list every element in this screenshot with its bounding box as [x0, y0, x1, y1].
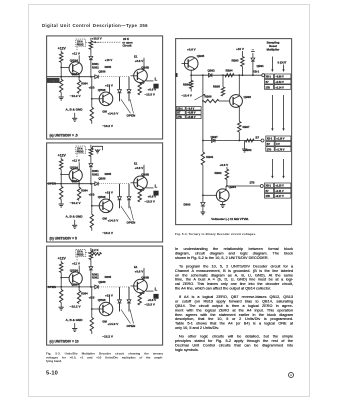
wire dotted bus	[99, 183, 129, 185]
junction	[91, 308, 93, 310]
resistor RB81	[201, 152, 204, 165]
svg-text:QB34: QB34	[69, 165, 77, 169]
svg-text:−13.2 V: −13.2 V	[102, 334, 114, 338]
wire collector QB36	[108, 295, 110, 304]
wire	[60, 92, 62, 97]
wire base QB98	[130, 182, 137, 184]
wire +12V rail	[60, 261, 62, 263]
svg-text:+1.15 V: +1.15 V	[275, 184, 284, 187]
transistor QB98	[133, 69, 147, 83]
junction	[222, 74, 224, 76]
resistor R368	[138, 83, 141, 95]
transistor QB34	[69, 62, 82, 75]
wire emitter	[78, 74, 80, 81]
svg-text:(a) UNITS/DIV = .5: (a) UNITS/DIV = .5	[49, 133, 77, 137]
resistor RB82	[226, 167, 228, 169]
body text column	[175, 247, 293, 357]
ground	[220, 204, 225, 207]
wire collector QB36	[108, 85, 110, 94]
wire collector QB36	[108, 192, 110, 201]
wire emitter QB98	[143, 81, 145, 83]
open arrow 2	[130, 206, 134, 220]
wire long vertical bus	[202, 75, 204, 152]
svg-text:PROG: PROG	[76, 255, 83, 257]
svg-text:+12V: +12V	[57, 154, 66, 158]
wire base tap	[61, 66, 69, 68]
wire	[90, 156, 92, 163]
svg-text:OPEN: OPEN	[126, 324, 136, 328]
ground	[72, 225, 77, 228]
terminal XB-1	[262, 73, 265, 76]
svg-text:−0.68 V: −0.68 V	[187, 111, 196, 114]
caption figure 5-4	[175, 233, 339, 239]
svg-text:+10 V: +10 V	[236, 47, 244, 51]
svg-text:CH A: CH A	[77, 147, 83, 150]
svg-text:+13 V: +13 V	[105, 84, 113, 88]
svg-text:B7: B7	[256, 135, 260, 139]
arrow into table 1	[271, 56, 273, 70]
transistor QB98	[133, 176, 147, 190]
svg-text:+11 V: +11 V	[72, 159, 81, 163]
resistor R365b	[90, 107, 93, 121]
wire mid bus	[203, 139, 261, 141]
wire emitter QB98	[143, 188, 145, 190]
figure 5-4 schematic	[175, 38, 293, 226]
resistor R368	[138, 294, 141, 306]
svg-text:+12V: +12V	[57, 257, 66, 261]
svg-text:GP34: GP34	[50, 79, 57, 83]
wire	[60, 169, 62, 186]
diode D361	[89, 267, 93, 270]
diode QB97	[212, 138, 215, 142]
svg-text:+12V: +12V	[57, 47, 66, 51]
svg-text:RB95: RB95	[213, 84, 220, 88]
diode QB35	[94, 285, 97, 289]
resistor R366	[77, 291, 80, 304]
svg-text:QB36: QB36	[98, 280, 106, 284]
svg-text:+0.6 V: +0.6 V	[147, 88, 156, 92]
wire dashed prog drop	[76, 257, 78, 262]
svg-text:−10.2 V: −10.2 V	[69, 201, 81, 205]
wire collector QB98	[143, 268, 145, 281]
svg-text:CH A: CH A	[77, 251, 83, 254]
ground	[244, 140, 246, 149]
svg-text:−13.5 V: −13.5 V	[144, 303, 154, 307]
svg-text:+14.0 V: +14.0 V	[107, 112, 119, 116]
junction	[60, 286, 62, 288]
resistor R362	[59, 79, 62, 92]
svg-text:RB82: RB82	[215, 171, 222, 175]
transistor QB36	[99, 92, 113, 106]
svg-text:RB81: RB81	[206, 155, 213, 159]
diode D361	[89, 164, 93, 167]
resistor R365b	[90, 318, 93, 332]
wire dashed prog line	[85, 149, 100, 151]
wire collector	[78, 266, 80, 274]
svg-text:−10.4 V: −10.4 V	[182, 93, 192, 97]
svg-text:+11 V: +11 V	[72, 262, 81, 266]
svg-text:QB96: QB96	[97, 88, 105, 92]
relay box Ch A Prog	[75, 146, 85, 153]
resistor RB98	[203, 100, 204, 102]
wire divider leg	[90, 184, 92, 215]
svg-text:B7: B7	[266, 189, 270, 192]
junction	[78, 286, 80, 288]
program clip to ground symbol	[92, 146, 102, 150]
svg-text:2.2 K: 2.2 K	[91, 248, 99, 252]
wire base QB98	[130, 75, 137, 77]
svg-text:L: L	[154, 77, 157, 82]
resistor R362	[59, 290, 62, 303]
wire out bus 3	[226, 185, 260, 187]
diode QB38	[128, 287, 130, 299]
diode D361	[89, 57, 93, 60]
svg-text:A, B & GND: A, B & GND	[65, 318, 83, 322]
wire	[90, 260, 92, 267]
junction	[78, 76, 80, 78]
wire +12V rail	[60, 51, 62, 53]
wire dashed prog drop	[76, 154, 78, 159]
svg-text:OPEN: OPEN	[126, 114, 136, 118]
diode QB38	[128, 184, 130, 196]
svg-text:+1.16 V: +1.16 V	[276, 137, 285, 140]
left voltage table	[176, 106, 201, 118]
svg-text:−13.2 V: −13.2 V	[102, 231, 114, 235]
resistor R365b	[90, 214, 93, 228]
revision mark circled A	[288, 372, 294, 378]
svg-text:R365: R365	[104, 65, 111, 69]
wire base QB84	[203, 194, 217, 196]
svg-text:−13.2 V: −13.2 V	[102, 124, 114, 128]
svg-text:QB8: QB8	[71, 179, 77, 183]
svg-text:QB91: QB91	[257, 64, 265, 68]
transistor QB36	[99, 199, 113, 213]
wire emitter	[78, 284, 80, 291]
wire divider leg	[90, 77, 92, 108]
wire ground link	[73, 113, 75, 119]
diode QB35	[94, 182, 97, 186]
svg-text:QB8: QB8	[71, 282, 77, 286]
wire	[60, 273, 62, 290]
wire dotted bus	[99, 76, 129, 78]
wire output	[146, 187, 154, 189]
svg-text:R364: R364	[81, 82, 88, 86]
svg-text:Voltmeter (–) 11 MΩ VTVM.: Voltmeter (–) 11 MΩ VTVM.	[211, 217, 249, 221]
wire dashed prog line	[85, 42, 100, 44]
terminal stub on border	[176, 73, 178, 77]
svg-text:0 (OUT: 0 (OUT	[278, 60, 287, 64]
terminal B7	[261, 139, 264, 142]
svg-text:+0.17 V: +0.17 V	[275, 195, 284, 198]
wire emitter QB98	[143, 292, 145, 294]
resistor RB92	[245, 139, 254, 142]
resistor R363	[89, 41, 92, 50]
voltage table 1	[265, 74, 291, 89]
terminal 27B	[260, 184, 263, 187]
wire base tap	[61, 173, 69, 175]
svg-text:+14.0 V: +14.0 V	[107, 219, 119, 223]
open arrow 2	[130, 310, 134, 324]
svg-text:+3.96 V: +3.96 V	[187, 115, 196, 118]
page number 5-10	[46, 370, 106, 382]
svg-text:GM: GM	[102, 216, 107, 220]
wire base QB36	[91, 308, 102, 310]
resistor R361	[59, 263, 62, 273]
wire	[60, 199, 62, 204]
svg-text:+1.11 V: +1.11 V	[275, 189, 284, 192]
svg-text:RB96: RB96	[183, 82, 190, 86]
svg-text:−10.2 V: −10.2 V	[69, 94, 81, 98]
resistor RB93	[241, 51, 243, 57]
svg-text:XB-1: XB-1	[266, 184, 272, 187]
svg-text:QB36: QB36	[98, 70, 106, 74]
svg-text:+3.6 V: +3.6 V	[134, 166, 143, 170]
junction	[60, 183, 62, 185]
svg-text:−0.86 V: −0.86 V	[275, 75, 284, 78]
wire input line	[46, 286, 94, 288]
svg-text:RB93: RB93	[232, 58, 239, 62]
svg-text:XB-1: XB-1	[266, 75, 272, 78]
svg-text:R364: R364	[81, 292, 88, 296]
junction	[60, 67, 62, 69]
wire base QB36	[91, 205, 102, 207]
svg-text:QB36: QB36	[98, 177, 106, 181]
wire input line	[46, 76, 94, 78]
svg-text:R365: R365	[104, 172, 111, 176]
wire base QB36	[91, 98, 102, 100]
svg-text:R362: R362	[92, 172, 99, 176]
svg-text:+3.6 V: +3.6 V	[134, 59, 143, 63]
resistor R363	[89, 148, 92, 157]
svg-text:R364: R364	[81, 189, 88, 193]
svg-text:QB8: QB8	[71, 72, 77, 76]
svg-text:QB34: QB34	[69, 58, 77, 62]
svg-text:R362: R362	[92, 276, 99, 280]
wire +12V rail	[60, 158, 62, 160]
svg-text:XB-1: XB-1	[267, 137, 273, 140]
resistor R363	[89, 251, 92, 260]
wire base QB98	[130, 285, 137, 287]
resistor R368	[138, 190, 141, 202]
junction	[202, 100, 204, 102]
junction	[202, 74, 204, 76]
svg-text:27B: 27B	[266, 86, 271, 89]
svg-text:27B: 27B	[266, 195, 271, 198]
diode QB38	[128, 77, 130, 89]
node A input label	[47, 78, 60, 83]
open arrow 1	[121, 99, 131, 113]
wire main bus	[191, 74, 262, 76]
arrow pair B	[271, 159, 273, 177]
ground	[58, 307, 63, 310]
resistor R366	[77, 187, 80, 200]
svg-text:CH A: CH A	[77, 40, 83, 43]
svg-text:+13 V: +13 V	[105, 191, 113, 195]
svg-text:QB96: QB96	[244, 95, 252, 99]
transistor QB84	[216, 188, 229, 201]
wire ground link	[73, 220, 75, 226]
svg-text:QB9B: QB9B	[141, 173, 149, 177]
diode D800	[202, 200, 204, 202]
wire base tap	[61, 277, 69, 279]
svg-text:(b) UNITS/DIV = 5: (b) UNITS/DIV = 5	[49, 236, 77, 240]
svg-text:E1: E1	[134, 265, 138, 269]
diode QB37	[118, 77, 120, 89]
wire dotted bus	[99, 286, 129, 288]
junction	[91, 205, 93, 207]
svg-text:RB98: RB98	[205, 94, 212, 98]
svg-text:XB-1: XB-1	[253, 69, 260, 73]
junction	[60, 76, 62, 78]
svg-text:QB92: QB92	[208, 68, 216, 72]
svg-text:+11 V: +11 V	[72, 52, 81, 56]
svg-text:+1.14 V: +1.14 V	[275, 86, 284, 89]
wire	[60, 303, 62, 308]
svg-text:QB9B: QB9B	[141, 66, 149, 70]
svg-text:−13.5 V: −13.5 V	[144, 92, 154, 96]
diode QB37	[118, 287, 120, 299]
svg-text:OPEN: OPEN	[126, 221, 136, 225]
wire top pull line	[90, 248, 92, 251]
svg-text:L: L	[154, 287, 157, 292]
junction	[90, 183, 92, 185]
wire collector QB98	[143, 165, 145, 178]
svg-text:QB97: QB97	[211, 134, 219, 138]
wire	[60, 62, 62, 79]
wire collector QB96	[238, 75, 240, 96]
svg-text:+0.6 V: +0.6 V	[147, 298, 156, 302]
wire top pull line	[90, 38, 92, 41]
svg-text:0 V: 0 V	[276, 142, 280, 145]
wire collector QB84	[225, 186, 227, 190]
svg-text:QB34: QB34	[69, 269, 77, 273]
svg-text:+3.6 V: +3.6 V	[187, 47, 196, 51]
svg-text:RB94: RB94	[226, 68, 233, 72]
svg-text:GM: GM	[102, 109, 107, 113]
transistor QB34	[69, 169, 82, 182]
wire emitter	[78, 181, 80, 188]
svg-text:R362: R362	[92, 65, 99, 69]
svg-text:−3.4 V: −3.4 V	[187, 107, 194, 110]
svg-text:+13 V: +13 V	[105, 294, 113, 298]
svg-text:+3.6 V: +3.6 V	[134, 269, 143, 273]
wire dashed prog line	[85, 252, 100, 254]
arrow into table 1b	[283, 64, 285, 70]
ground	[58, 97, 63, 100]
svg-text:Circuit: Circuit	[122, 44, 131, 48]
junction	[190, 74, 192, 76]
resistor R362	[59, 186, 62, 199]
wire emitter QB96	[238, 106, 240, 121]
junction	[252, 74, 254, 76]
relay box Ch A Prog	[75, 249, 85, 256]
diode QB92	[209, 73, 212, 77]
open arrow 1	[121, 310, 131, 324]
svg-text:Multiplier: Multiplier	[267, 47, 281, 51]
junction	[90, 76, 92, 78]
svg-text:+0.6 V: +0.6 V	[147, 195, 156, 199]
svg-text:+10.5 V: +10.5 V	[91, 37, 101, 41]
arrow pair A	[271, 95, 273, 129]
svg-text:27B: 27B	[250, 180, 255, 184]
voltage table 2	[266, 136, 291, 151]
svg-text:+1.52 V: +1.52 V	[275, 80, 284, 83]
wire base QB95	[182, 62, 189, 64]
svg-text:GM: GM	[102, 320, 107, 324]
wire collector QB95	[190, 69, 192, 75]
wire	[202, 165, 204, 201]
svg-text:−10.2 V: −10.2 V	[69, 304, 81, 308]
ground	[201, 212, 206, 215]
wire divider leg	[90, 287, 92, 318]
svg-text:B7: B7	[267, 142, 271, 145]
svg-text:27B: 27B	[267, 148, 272, 151]
svg-text:L: L	[154, 184, 157, 189]
junction	[90, 286, 92, 288]
svg-text:R365: R365	[104, 275, 111, 279]
wire collector	[78, 162, 80, 170]
svg-text:A, B & GND: A, B & GND	[65, 108, 83, 112]
diode QB37	[118, 184, 120, 196]
panel (c) border	[46, 246, 162, 345]
svg-text:D800: D800	[184, 202, 191, 206]
open arrow 1	[121, 206, 131, 220]
panel (a) border	[46, 36, 162, 139]
wire ground link	[73, 323, 75, 329]
svg-text:+1.78 V: +1.78 V	[276, 148, 285, 151]
svg-text:QB96: QB96	[97, 195, 105, 199]
svg-text:QB95: QB95	[197, 54, 205, 58]
transistor QB36	[99, 302, 113, 316]
wire output	[146, 290, 154, 292]
resistor RB96	[190, 75, 192, 80]
open arrow 2	[130, 99, 134, 113]
svg-text:PROG: PROG	[76, 45, 83, 47]
wire input line	[46, 183, 94, 185]
junction	[78, 183, 80, 185]
resistor R361	[59, 159, 62, 169]
svg-text:RB97: RB97	[243, 125, 250, 129]
wire dashed prog drop	[76, 47, 78, 52]
transistor QB95	[184, 56, 198, 70]
wire emitter QB84	[222, 201, 224, 204]
junction	[242, 74, 244, 76]
svg-text:PROG: PROG	[76, 152, 83, 154]
junction	[91, 98, 93, 100]
resistor R366	[77, 80, 80, 93]
wire output	[146, 80, 154, 82]
transistor QB34	[69, 272, 82, 285]
voltage table 3	[265, 183, 291, 198]
arrow annotation	[195, 94, 205, 100]
junction	[60, 277, 62, 279]
svg-text:QB9B: QB9B	[141, 276, 149, 280]
svg-text:XB-1: XB-1	[177, 107, 183, 110]
wire	[90, 49, 92, 56]
junction	[60, 174, 62, 176]
svg-text:27B: 27B	[177, 115, 182, 118]
ground	[72, 118, 77, 121]
switch dashed lead	[95, 41, 121, 43]
svg-text:(c) UNITS/DIV = 10: (c) UNITS/DIV = 10	[49, 340, 78, 344]
figure 5-4 border	[176, 38, 292, 224]
page header	[42, 23, 262, 33]
wire collector QB98	[143, 58, 145, 71]
diode QB91	[252, 53, 254, 58]
svg-text:B7: B7	[266, 80, 270, 83]
resistor R361	[59, 52, 62, 62]
svg-text:E1: E1	[134, 162, 138, 166]
